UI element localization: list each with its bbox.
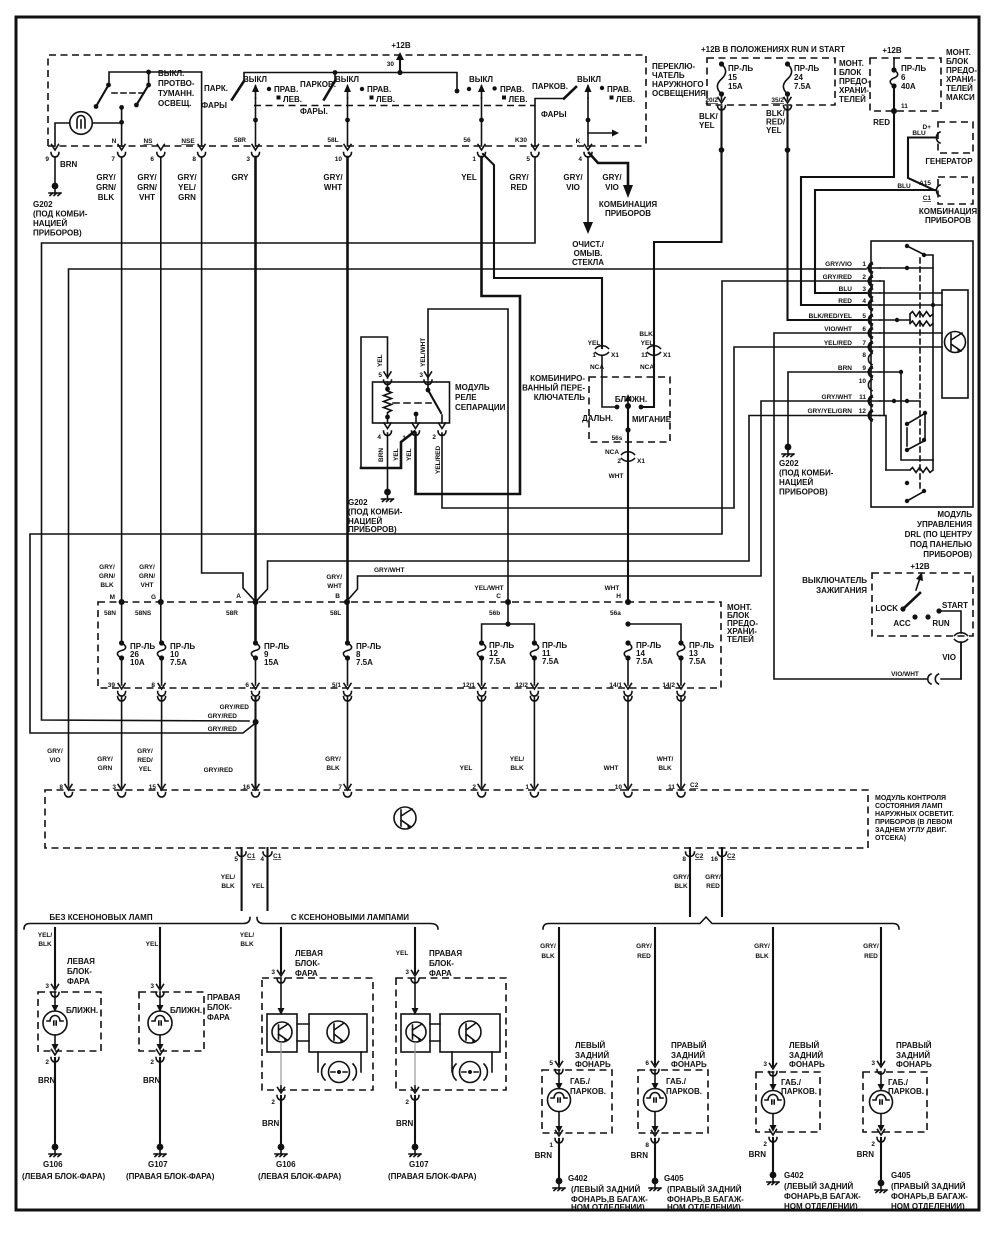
svg-text:NS: NS [143,138,153,145]
svg-text:ПРЕДО-: ПРЕДО- [839,77,870,86]
section header БЕЗ КСЕНОНОВЫХ ЛАМП with brace [24,913,250,929]
svg-text:BLU: BLU [839,286,853,293]
low beam lamp symbol [148,992,202,1051]
svg-text:K: K [576,138,581,145]
svg-text:МАКСИ: МАКСИ [946,93,975,102]
svg-text:ЧАТЕЛЬ: ЧАТЕЛЬ [652,71,685,80]
svg-text:GRN/: GRN/ [137,183,158,192]
svg-text:GRY: GRY [231,173,249,182]
svg-text:BLK/RED/YEL: BLK/RED/YEL [809,313,852,320]
svg-text:БЛОК-: БЛОК- [295,959,320,968]
svg-text:5: 5 [526,156,530,163]
svg-text:YEL: YEL [460,765,473,772]
svg-text:RUN: RUN [932,619,950,628]
svg-text:8: 8 [682,856,686,863]
svg-text:C: C [496,593,501,600]
svg-text:НОМ ОТДЕЛЕНИИ): НОМ ОТДЕЛЕНИИ) [784,1202,858,1211]
tail lamp bulb [870,1072,893,1132]
svg-text:ПРИБОРОВ: ПРИБОРОВ [605,209,651,218]
svg-text:ФОНАРЬ,В БАГАЖ-: ФОНАРЬ,В БАГАЖ- [784,1192,861,1201]
svg-text:35/2: 35/2 [771,97,784,104]
fuse 6 40A maxi [890,58,926,114]
svg-text:YEL: YEL [461,173,477,182]
svg-text:(ЛЕВАЯ БЛОК-ФАРА): (ЛЕВАЯ БЛОК-ФАРА) [22,1172,105,1181]
igniter module boxes with transistors [267,978,297,1052]
wire START to VIO connector [939,611,968,679]
fuse block output pins [108,682,685,701]
terminal G 58NS [135,594,164,617]
fog indicator lamp symbol [70,112,93,135]
svg-text:МОДУЛЬ: МОДУЛЬ [455,383,490,392]
svg-text:G: G [151,594,156,601]
svg-text:YEL/: YEL/ [221,874,236,881]
svg-text:WHT: WHT [327,583,342,590]
svg-text:ОСВЕЩЕНИЯ: ОСВЕЩЕНИЯ [652,89,706,98]
svg-text:GRY/: GRY/ [326,574,342,581]
BRN wire DRL pin9 to ground G202 [779,372,866,497]
svg-text:BRN: BRN [396,1119,414,1128]
svg-text:5: 5 [862,313,866,320]
svg-text:10: 10 [859,378,867,385]
fuse block (МОНТ. БЛОК ПРЕДОХРАНИТЕЛЕЙ) dashed box [98,602,721,688]
svg-text:BLK: BLK [221,883,235,890]
YEL loop wire relay pin1 to relay pin5 [361,337,415,468]
svg-text:ПРИБОРОВ): ПРИБОРОВ) [33,229,82,238]
svg-text:(ПРАВАЯ БЛОК-ФАРА): (ПРАВАЯ БЛОК-ФАРА) [388,1172,477,1181]
svg-text:БЛИЖН.: БЛИЖН. [170,1006,202,1015]
svg-text:БЛОК-: БЛОК- [207,1003,232,1012]
svg-text:GRY/RED: GRY/RED [204,767,234,774]
svg-text:GRN/: GRN/ [139,573,155,580]
svg-text:RED: RED [838,298,852,305]
tail lamp bulb [548,1070,571,1133]
svg-text:5: 5 [549,1060,553,1067]
svg-text:ТУМАНН.: ТУМАНН. [158,89,194,98]
svg-text:2: 2 [763,1141,767,1148]
svg-text:ПР-ЛЬ: ПР-ЛЬ [794,64,819,73]
svg-text:МОНТ.: МОНТ. [839,59,864,68]
svg-text:C2: C2 [727,853,736,860]
svg-text:ЛЕВАЯ: ЛЕВАЯ [67,957,95,966]
connector X1 pin 11 [639,331,671,371]
svg-text:ПРАВ.: ПРАВ. [607,85,631,94]
56 switch group [467,75,528,146]
svg-text:ТЕЛЕЙ: ТЕЛЕЙ [839,95,866,104]
svg-text:YEL/: YEL/ [510,756,525,763]
svg-text:YEL: YEL [588,340,601,347]
svg-text:BRN: BRN [262,1119,280,1128]
svg-text:C1: C1 [923,195,932,202]
GRY/VIO wire DRL pin1 to monitor module pin 8 [69,269,867,787]
GRY/WHT thick wire switch pin10 58L to fuse B [346,157,349,600]
svg-text:ПРЕДО-: ПРЕДО- [946,66,977,75]
svg-text:БЛОК: БЛОК [946,57,968,66]
svg-text:14/2: 14/2 [662,682,675,689]
switch pin connectors at box bottom [51,145,592,158]
svg-text:1: 1 [525,784,529,791]
left xenon headlamp dashed box [262,978,373,1090]
svg-text:4: 4 [578,156,582,163]
fog switch blade 1 [94,83,111,109]
ground G202 under switch pin 9 [33,157,88,238]
svg-text:GRY/VIO: GRY/VIO [825,261,852,268]
generator dashed box [923,122,974,166]
svg-text:56: 56 [463,137,471,144]
svg-text:3: 3 [871,1060,875,1067]
svg-text:BLK/: BLK/ [639,331,654,338]
svg-text:8: 8 [192,156,196,163]
svg-text:11: 11 [641,352,648,359]
svg-text:G107: G107 [148,1160,168,1169]
combo switch output 56s [605,435,645,480]
svg-text:6: 6 [645,1060,649,1067]
svg-text:С КСЕНОНОВЫМИ ЛАМПАМИ: С КСЕНОНОВЫМИ ЛАМПАМИ [291,913,409,922]
fuse box (run/start) dashed box [701,45,845,105]
tail lamp bulb [644,1070,667,1133]
svg-text:(ЛЕВЫЙ ЗАДНИЙ: (ЛЕВЫЙ ЗАДНИЙ [784,1182,854,1191]
terminal A 58R [226,593,259,617]
fuse 14 7.5A [624,640,661,685]
svg-text:ЛЕВЫЙ: ЛЕВЫЙ [789,1041,820,1050]
svg-text:YEL/WHT: YEL/WHT [420,338,427,367]
svg-text:YEL/RED: YEL/RED [435,446,442,474]
svg-text:RED: RED [706,883,720,890]
svg-text:G402: G402 [784,1171,804,1180]
svg-text:VIO/WHT: VIO/WHT [824,326,852,333]
svg-text:YEL: YEL [252,883,265,890]
DRL pin 9 [838,365,880,378]
svg-text:5/1: 5/1 [332,682,341,689]
svg-text:НАРУЖНОГО: НАРУЖНОГО [652,80,704,89]
svg-text:16: 16 [243,784,251,791]
+12V arrow at ignition [910,562,930,590]
svg-text:КЛЮЧАТЕЛЬ: КЛЮЧАТЕЛЬ [534,393,585,402]
switch pin numbers [45,156,582,163]
svg-text:GRY/RED: GRY/RED [823,274,853,281]
pin 2 and BRN wire to ground G106 [22,1050,105,1182]
WHT wire combo switch to fuse H 56a [627,432,629,600]
svg-text:GRY/: GRY/ [96,173,116,182]
svg-text:СОСТОЯНИЯ ЛАМП: СОСТОЯНИЯ ЛАМП [875,803,943,810]
DRL pin 1 [825,261,880,274]
internal arrow to right from K wire [588,130,619,137]
svg-text:НОМ ОТДЕЛЕНИИ): НОМ ОТДЕЛЕНИИ) [667,1203,741,1212]
left halogen headlamp dashed box [38,992,101,1051]
svg-text:GRY/: GRY/ [636,943,652,950]
svg-text:C2: C2 [690,782,699,789]
svg-text:(ПОД КОМБИ-: (ПОД КОМБИ- [779,469,834,478]
svg-text:RED/: RED/ [137,757,153,764]
svg-text:7: 7 [111,156,115,163]
connector X1 pin 1 [588,340,620,371]
svg-text:ЗАДНИЙ: ЗАДНИЙ [671,1051,705,1060]
svg-text:(ЛЕВАЯ БЛОК-ФАРА): (ЛЕВАЯ БЛОК-ФАРА) [258,1172,341,1181]
svg-text:YEL: YEL [139,766,152,773]
svg-text:30: 30 [387,61,395,68]
svg-text:ХРАНИ-: ХРАНИ- [946,75,976,84]
svg-text:7.5А: 7.5А [356,658,373,667]
svg-text:ОТСЕКА): ОТСЕКА) [875,835,906,842]
svg-text:X1: X1 [637,458,645,465]
label GRY/WHT at 58L [326,574,342,590]
tail lamp 1 (left rear) [540,928,563,1074]
svg-text:VIO: VIO [49,757,60,764]
svg-text:ГАБ./: ГАБ./ [666,1077,687,1086]
svg-text:МОНТ.: МОНТ. [946,48,971,57]
right xenon headlamp column [396,928,419,983]
svg-text:ФОНАРЬ,В БАГАЖ-: ФОНАРЬ,В БАГАЖ- [891,1192,968,1201]
label ВЫКЛ. ПРОТВО-ТУМАНН. ОСВЕЩ. [158,69,195,108]
svg-text:ФОНАРЬ: ФОНАРЬ [789,1060,825,1069]
branch wire pin 4 to instrument cluster arrow [589,153,657,218]
wire label BLK/RED/YEL [766,109,786,135]
terminal B 58L [330,593,350,617]
svg-text:LOCK: LOCK [875,604,898,613]
wire lamp to pin 9 [55,123,70,146]
svg-text:BRN: BRN [143,1076,161,1085]
instrument cluster dashed box A15/C1 [919,177,977,225]
svg-text:15А: 15А [728,82,743,91]
DRL pin 5 [809,313,880,326]
svg-text:VIO/WHT: VIO/WHT [891,671,919,678]
svg-text:2: 2 [45,1059,49,1066]
RED wire from maxi fuse to DRL pin 4 [801,111,894,305]
svg-text:GRY/: GRY/ [177,173,197,182]
svg-text:НАРУЖНЫХ ОСВЕТИТ.: НАРУЖНЫХ ОСВЕТИТ. [875,811,954,818]
svg-text:7.5А: 7.5А [542,657,559,666]
svg-text:ЛЕВЫЙ: ЛЕВЫЙ [575,1041,606,1050]
svg-text:YEL/RED: YEL/RED [824,340,852,347]
svg-text:58N: 58N [104,610,116,617]
svg-text:3: 3 [405,969,409,976]
right halogen headlamp dashed box [139,992,204,1051]
svg-text:6: 6 [862,326,866,333]
svg-text:G202: G202 [348,498,368,507]
svg-text:МОДУЛЬ КОНТРОЛЯ: МОДУЛЬ КОНТРОЛЯ [875,795,946,802]
DRL pin 2 [823,274,880,287]
svg-text:БЛОК: БЛОК [839,68,861,77]
combo switch internals: low/high/flash [582,356,672,433]
svg-text:X1: X1 [663,352,671,359]
fog switch blade 2 [134,83,151,108]
DRL pin 10 unused [859,378,872,391]
svg-text:ПАРКОВ.: ПАРКОВ. [666,1087,702,1096]
fuse 24 output pin 35/2 [771,94,791,110]
svg-text:40А: 40А [901,82,916,91]
svg-text:G405: G405 [664,1174,684,1183]
svg-text:YEL: YEL [641,340,654,347]
svg-text:ЗАЖИГАНИЯ: ЗАЖИГАНИЯ [816,586,867,595]
svg-text:УПРАВЛЕНИЯ: УПРАВЛЕНИЯ [917,520,972,529]
DRL pin 12 [807,408,880,421]
svg-text:ACC: ACC [893,619,911,628]
svg-text:WHT/: WHT/ [657,756,674,763]
BLK/RED/YEL wire fuse24 to DRL pin 5 [785,107,866,320]
svg-text:G402: G402 [568,1174,588,1183]
YEL/RED wire relay pin2 to DRL pin 7 [442,347,866,508]
svg-text:11: 11 [668,784,675,791]
svg-text:ПРАВ.: ПРАВ. [500,85,524,94]
svg-text:B: B [335,593,340,600]
svg-text:16: 16 [711,856,719,863]
fuse 9 15A [251,602,289,685]
svg-text:4: 4 [377,434,381,441]
svg-text:ПРИБОРОВ: ПРИБОРОВ [925,216,971,225]
svg-text:ПАРКОВ.: ПАРКОВ. [570,1087,606,1096]
pin 2 and BRN wire to ground G107 [126,1050,215,1182]
svg-text:БЛИЖН.: БЛИЖН. [66,1006,98,1015]
svg-text:GRY/: GRY/ [509,173,529,182]
svg-text:7.5А: 7.5А [636,657,653,666]
svg-text:ПРОТВО-: ПРОТВО- [158,79,195,88]
svg-text:BLK: BLK [658,765,672,772]
svg-text:ПРАВЫЙ: ПРАВЫЙ [896,1041,932,1050]
svg-text:10: 10 [335,156,343,163]
svg-text:BLK: BLK [38,941,52,948]
svg-text:BRN: BRN [60,160,78,169]
monitor module internal transistor [394,807,416,830]
svg-text:8: 8 [645,1142,649,1149]
terminal M 58N [104,594,125,617]
svg-text:3: 3 [271,969,275,976]
58R branch from fuse A to DRL pin 12 [256,416,866,602]
svg-text:3: 3 [112,784,116,791]
label МОНТ. БЛОК ПРЕДОХРАНИТЕЛЕЙ [839,59,870,104]
svg-text:GRY/: GRY/ [863,943,879,950]
svg-text:6: 6 [150,156,154,163]
svg-text:GRY/: GRY/ [137,748,153,755]
svg-text:ПРИБОРОВ): ПРИБОРОВ) [923,550,972,559]
svg-text:RED: RED [511,183,528,192]
svg-text:ЛЕВ.: ЛЕВ. [616,95,635,104]
+12V feed arrow into switch, terminal 30 [387,41,411,75]
svg-text:GRY/: GRY/ [540,943,556,950]
svg-text:7: 7 [338,784,342,791]
fuse 26 10A [117,602,155,685]
maxi fuse box dashed [870,46,941,111]
svg-text:ФОНАРЬ: ФОНАРЬ [575,1060,611,1069]
svg-text:ЗАДНИЙ: ЗАДНИЙ [789,1051,823,1060]
svg-text:4: 4 [260,856,264,863]
svg-text:WHT: WHT [605,585,620,592]
svg-text:БЛИЖН.: БЛИЖН. [615,395,647,404]
wire color labels below switch [60,160,622,202]
svg-text:GRY/: GRY/ [673,874,689,881]
svg-text:GRN: GRN [98,765,113,772]
svg-text:YEL: YEL [146,941,159,948]
svg-text:14/1: 14/1 [609,682,622,689]
svg-text:C2: C2 [695,853,704,860]
svg-text:3: 3 [150,983,154,990]
right xenon headlamp dashed box [396,978,506,1090]
fuse pair 14/13 under H [625,621,681,643]
xenon box pin 2 to ground G106 [258,1052,341,1181]
svg-text:3: 3 [862,286,866,293]
svg-text:8: 8 [59,784,63,791]
svg-text:GRY/YEL/GRN: GRY/YEL/GRN [807,408,852,415]
svg-text:WHT: WHT [324,183,342,192]
svg-text:VIO: VIO [605,183,619,192]
DRL pin 8 unused [862,352,872,365]
58L switch blade [300,73,336,100]
svg-text:GRN/: GRN/ [99,573,115,580]
svg-text:ВЫКЛ.: ВЫКЛ. [158,69,184,78]
svg-text:ХРАНИ-: ХРАНИ- [839,86,869,95]
svg-text:G106: G106 [43,1160,63,1169]
fuse 24 7.5A [783,61,819,96]
svg-text:GRY/: GRY/ [754,943,770,950]
DRL internal circuitry [880,244,968,503]
svg-text:ПАРКОВ.: ПАРКОВ. [888,1087,924,1096]
svg-text:BLK/: BLK/ [699,112,718,121]
svg-text:БЛОК-: БЛОК- [67,967,92,976]
svg-text:2: 2 [862,274,866,281]
inline connector on VIO/WHT wire [928,674,939,684]
svg-text:2: 2 [432,434,436,441]
label ПЕРЕКЛЮЧАТЕЛЬ НАРУЖНОГО ОСВЕЩЕНИЯ [652,62,706,98]
svg-text:20/2: 20/2 [705,97,718,104]
monitor module bottom pins C2 [682,848,703,916]
svg-text:YEL/WHT: YEL/WHT [474,585,503,592]
svg-text:BRN: BRN [749,1150,767,1159]
svg-text:10: 10 [615,784,623,791]
svg-text:ВЫКЛЮЧАТЕЛЬ: ВЫКЛЮЧАТЕЛЬ [802,576,867,585]
svg-text:ПРАВЫЙ: ПРАВЫЙ [671,1041,707,1050]
labels ПАРК./ФАРЫ for 58R switch [201,84,228,110]
svg-text:58NS: 58NS [135,610,152,617]
svg-text:1: 1 [549,1142,553,1149]
svg-text:GRY/RED: GRY/RED [208,713,238,720]
GRY/GRN/WHT wire switch pin6 NS to fuse G [160,157,162,600]
DRL pin 4 [838,298,880,311]
svg-text:ЗАДНИЙ: ЗАДНИЙ [575,1051,609,1060]
wire labels above fuse block [99,564,620,592]
svg-text:9: 9 [862,365,866,372]
svg-text:ВЫКЛ: ВЫКЛ [335,75,359,84]
tail lamp 4 (right rear xenon version) [863,928,885,1074]
svg-text:СЕПАРАЦИИ: СЕПАРАЦИИ [455,403,506,412]
svg-text:ПАРКОВ.: ПАРКОВ. [532,82,568,91]
GRY/WHT wire DRL pin11 to fuse B join [348,401,866,600]
svg-text:58L: 58L [327,137,338,144]
svg-text:VIO: VIO [566,183,580,192]
svg-text:(ПОД КОМБИ-: (ПОД КОМБИ- [33,210,88,219]
BLU wire generator D+ to cluster A15 [908,130,936,190]
svg-text:(ПОД КОМБИ-: (ПОД КОМБИ- [348,508,403,517]
svg-text:5: 5 [378,372,382,379]
svg-text:GRY/: GRY/ [137,173,157,182]
svg-text:1: 1 [592,352,596,359]
svg-text:ВЫКЛ: ВЫКЛ [243,75,267,84]
wire color labels above monitor module [47,748,673,774]
svg-text:YEL: YEL [396,950,409,957]
fuse 10 7.5A [157,602,195,685]
svg-text:12: 12 [859,408,867,415]
58L OFF arrow and contacts [335,75,395,146]
svg-text:2: 2 [472,784,476,791]
svg-text:ГАБ./: ГАБ./ [888,1078,909,1087]
svg-text:BLK: BLK [510,765,524,772]
svg-text:15А: 15А [264,658,279,667]
main switch rail wire [244,70,459,93]
wires fuse block to monitor module [122,697,681,787]
svg-text:G202: G202 [33,200,53,209]
svg-text:1: 1 [472,156,476,163]
svg-text:ПР-ЛЬ: ПР-ЛЬ [901,64,926,73]
svg-text:8: 8 [151,682,155,689]
svg-text:BLK: BLK [755,953,769,960]
xenon bulb symbol [452,1052,492,1083]
